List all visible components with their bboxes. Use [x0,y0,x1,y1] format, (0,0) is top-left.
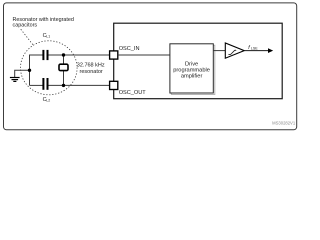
amplifier block shadow [171,45,214,94]
callout leader (dashed) [21,30,34,46]
svg-text:32.768 kHz: 32.768 kHz [77,62,105,68]
signal fLSE: output wire [244,50,269,52]
node A: OSC_IN junction [62,53,65,56]
svg-text:resonator: resonator [80,69,103,75]
node B: OSC_OUT junction [62,84,65,87]
ground [10,77,20,79]
wire: ground stem [15,70,30,77]
svg-text:L2: L2 [46,99,50,103]
svg-text:L1: L1 [46,35,50,39]
signal fLSE: arrowhead [268,48,273,53]
crystal X1 (32.768 kHz resonator) [63,55,65,64]
wire: amplifier to buffer [213,50,225,52]
resonator outline (dashed circle) [21,41,78,95]
svg-text:OSC_IN: OSC_IN [119,46,140,52]
wire: OSC_IN to amplifier [118,54,170,56]
svg-text:MS30282V1: MS30282V1 [272,121,296,126]
svg-text:LSE: LSE [251,47,258,51]
schmitt buffer [225,43,244,58]
chip boundary [114,23,283,99]
capacitor CL2 [42,78,44,90]
capacitor CL1 [42,50,44,60]
wire: bottom branch (OSC_OUT net) [30,84,43,86]
svg-text:OSC_OUT: OSC_OUT [119,90,147,96]
node: ground tee junction [28,69,31,72]
svg-text:capacitors: capacitors [13,23,38,29]
pin OSC_IN [110,51,118,59]
svg-text:amplifier: amplifier [181,73,203,79]
hysteresis mark [228,50,236,54]
wire: top branch (OSC_IN net) [30,55,43,85]
pin OSC_OUT [110,81,118,89]
amplifier block: Drive programmable amplifier [170,44,213,93]
figure frame [4,3,297,130]
